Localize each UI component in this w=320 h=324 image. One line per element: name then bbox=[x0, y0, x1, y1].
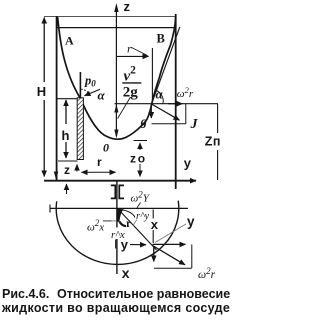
svg-text:Zп: Zп bbox=[205, 134, 221, 148]
zo down arrow bbox=[139, 164, 141, 177]
r dimension line (bottom left) bbox=[82, 171, 93, 173]
svg-text:x: x bbox=[151, 217, 159, 232]
left wall bottom arrowhead bbox=[54, 172, 59, 180]
svg-text:y: y bbox=[121, 237, 129, 252]
tick at bottom of pressure column bbox=[58, 160, 78, 162]
z dimension arrow below bottom line bbox=[66, 184, 68, 194]
leader from v2/2g to z axis segment bbox=[118, 97, 131, 119]
right wall bbox=[175, 14, 177, 189]
rotation axis continuation bbox=[116, 181, 118, 274]
tangent line at right surface point bbox=[152, 27, 180, 104]
svg-text:A: A bbox=[65, 34, 74, 48]
svg-text:H: H bbox=[37, 84, 46, 99]
v2/2g dimension up arrowhead bbox=[114, 104, 118, 113]
omega^2 x vector from M bbox=[153, 246, 155, 262]
r arrow at top bbox=[117, 55, 149, 57]
rotation direction bold curved arrow bbox=[117, 209, 124, 222]
h dimension line bbox=[65, 100, 67, 124]
J vector bbox=[152, 104, 180, 120]
svg-text:α: α bbox=[98, 88, 106, 103]
y coordinate tick bbox=[115, 240, 117, 249]
omega^2 y vector from M bbox=[153, 243, 186, 245]
alpha arc at right surface point bbox=[157, 91, 164, 104]
Zp dimension line bbox=[217, 104, 219, 133]
svg-text:h: h bbox=[62, 128, 70, 143]
leader from y axis label to M bbox=[155, 224, 186, 243]
label r^x bbox=[110, 228, 130, 240]
v2/2g dimension down arrowhead at vertex bbox=[114, 130, 118, 139]
label r^y bbox=[135, 210, 152, 220]
pressure column (hatched) bbox=[77, 98, 83, 160]
caption bbox=[1, 287, 230, 315]
zo tick near vertex bbox=[134, 140, 148, 142]
y coordinate line with arrow to M bbox=[130, 244, 146, 246]
svg-text:жидкости во вращающемся сосуде: жидкости во вращающемся сосуде bbox=[1, 301, 230, 315]
rotation direction thin arc bbox=[121, 210, 136, 220]
zo up arrow bbox=[139, 143, 141, 150]
parallelogram right side (plan) bbox=[191, 244, 193, 268]
omega^2 r vector arrowhead bbox=[168, 103, 183, 105]
plan view bbox=[50, 181, 192, 274]
parabola (liquid surface) bbox=[58, 17, 176, 139]
svg-text:2g: 2g bbox=[123, 85, 139, 101]
omega^2 r resultant vector from M bbox=[153, 246, 186, 265]
leader from omega^2 X label bbox=[112, 220, 117, 222]
svg-text:r: r bbox=[127, 42, 132, 56]
vessel rim line bbox=[56, 27, 176, 29]
leader from omega^2 Y label bbox=[137, 203, 141, 208]
svg-text:z: z bbox=[64, 163, 70, 177]
force parallelogram bottom side bbox=[152, 123, 186, 125]
dotted leader from p0 bbox=[81, 89, 89, 95]
z axis bbox=[115, 10, 117, 136]
x coordinate line of M bbox=[152, 210, 154, 219]
svg-text:J: J bbox=[190, 117, 199, 132]
svg-text:r^y: r^y bbox=[136, 211, 150, 222]
left wall bbox=[56, 16, 58, 181]
svg-text:B: B bbox=[157, 32, 165, 46]
force parallelogram right side bbox=[185, 104, 187, 124]
svg-text:zo: zo bbox=[130, 151, 147, 165]
leader from r label bbox=[132, 48, 148, 56]
initial level tick at left wall bbox=[57, 98, 77, 100]
svg-text:0: 0 bbox=[103, 141, 109, 155]
svg-text:g: g bbox=[140, 115, 147, 129]
plan view centerline bbox=[50, 207, 189, 209]
pivot symbol ][ right bracket bbox=[119, 185, 124, 198]
H dimension line bbox=[43, 18, 45, 83]
parallelogram bottom side (plan) bbox=[154, 267, 192, 269]
g vector bbox=[150, 104, 152, 118]
top reference line through A and B bbox=[44, 16, 176, 18]
svg-text:Рис.4.6.: Рис.4.6. bbox=[2, 287, 49, 301]
radius line to point M bbox=[118, 208, 157, 250]
pivot symbol ][ left bracket bbox=[111, 185, 116, 198]
svg-text:y: y bbox=[184, 156, 192, 171]
vessel circle (plan) bbox=[56, 201, 179, 265]
svg-text:y: y bbox=[187, 214, 195, 229]
level line through right surface point bbox=[115, 103, 219, 105]
p0 normal arrow into left surface point bbox=[85, 89, 101, 95]
left surface point vertical reference bbox=[79, 72, 81, 98]
leader from r^y label bbox=[133, 219, 138, 226]
svg-text:z: z bbox=[124, 0, 131, 14]
centerline left tick bbox=[49, 205, 51, 213]
svg-text:x: x bbox=[122, 265, 130, 281]
svg-text:Относительное равновесие: Относительное равновесие bbox=[57, 287, 230, 301]
svg-text:r: r bbox=[97, 155, 102, 169]
bottom / y axis bbox=[44, 180, 196, 182]
vertical line marking radius r to surface point bbox=[151, 48, 153, 101]
svg-text:α: α bbox=[156, 87, 164, 102]
z dimension small up arrow under tick bbox=[76, 165, 78, 172]
